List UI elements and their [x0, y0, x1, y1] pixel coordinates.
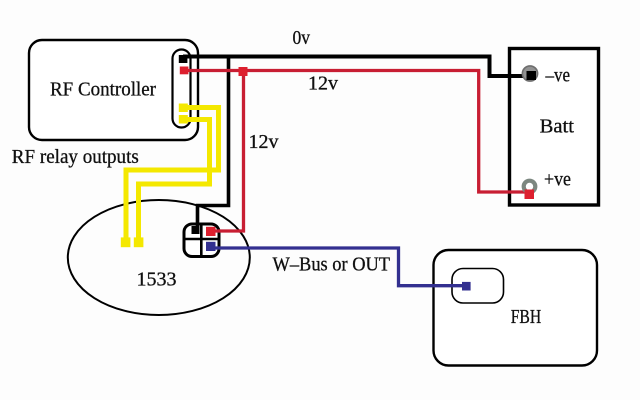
- pin blue W-Bus terminal in 1533 connector: [206, 242, 216, 251]
- pin blue W-Bus terminal in FBH: [462, 282, 471, 291]
- wire 12v red drop to 1533 connector: [211, 71, 244, 231]
- svg-text:FBH: FBH: [511, 306, 542, 328]
- 1533 connector vertical divider: [200, 224, 203, 257]
- wire W-Bus blue to FBH: [211, 248, 464, 286]
- FBH connector socket: [452, 269, 504, 304]
- relay pin 1 (yellow) on RF connector: [179, 104, 188, 113]
- RF Controller box: [29, 40, 198, 140]
- 1533 connector horizontal divider: [184, 238, 219, 241]
- yellow wire 2 end lug: [134, 237, 144, 247]
- yellow relay wire 1: [126, 108, 219, 241]
- svg-text:1533: 1533: [137, 269, 177, 291]
- RF Controller output connector: [173, 50, 191, 128]
- wire 0v black top run to battery: [183, 57, 528, 77]
- battery box: [510, 49, 599, 206]
- -ve terminal black lug: [527, 71, 537, 80]
- pin black terminal in 1533 connector: [192, 226, 200, 234]
- svg-text:RF Controller: RF Controller: [50, 79, 156, 101]
- svg-text:+ve: +ve: [544, 169, 571, 191]
- wire 12v red main run to battery: [184, 71, 529, 193]
- svg-text:RF relay outputs: RF relay outputs: [12, 146, 139, 168]
- svg-text:–ve: –ve: [545, 65, 570, 87]
- +ve terminal red lug: [525, 190, 535, 200]
- yellow relay wire 2: [139, 120, 210, 241]
- junction 12v node: [239, 67, 248, 76]
- yellow wire 1 end lug: [121, 237, 131, 247]
- +ve battery terminal: [524, 181, 536, 193]
- svg-text:Batt: Batt: [540, 116, 575, 138]
- pin 12v (red) on RF connector: [180, 67, 189, 75]
- svg-text:0v: 0v: [293, 27, 311, 49]
- -ve battery terminal: [522, 66, 537, 81]
- 1533 connector block: [184, 224, 219, 257]
- pin red 12v terminal in 1533 connector: [206, 227, 216, 236]
- FBH box: [434, 250, 598, 366]
- relay pin 2 (yellow) on RF connector: [179, 115, 188, 124]
- heater unit 1533 ellipse: [68, 200, 250, 315]
- pin 0v (black) on RF connector: [179, 55, 188, 63]
- svg-text:12v: 12v: [249, 131, 279, 153]
- wire black drop to 1533 connector: [198, 57, 229, 231]
- svg-text:12v: 12v: [308, 73, 338, 95]
- svg-text:W–Bus or OUT: W–Bus or OUT: [273, 254, 391, 276]
